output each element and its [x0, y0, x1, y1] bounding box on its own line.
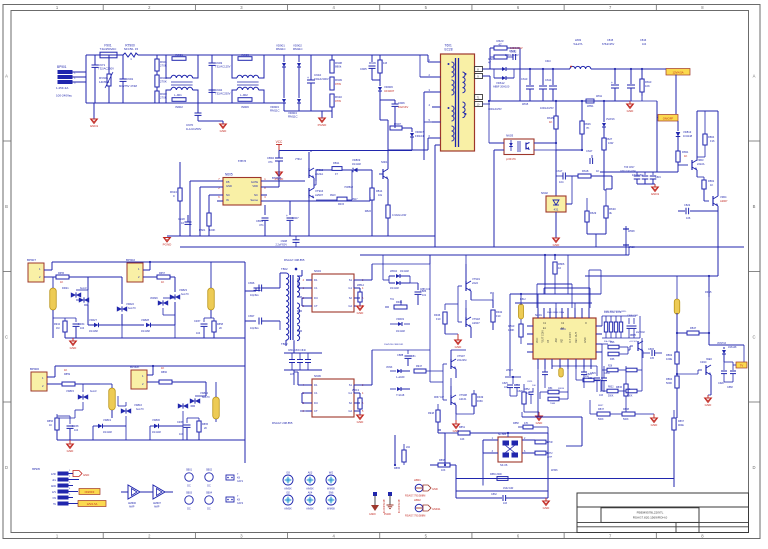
wire [552, 365, 597, 367]
svg-text:R822: R822 [365, 209, 372, 213]
svg-text:RM11C: RM11C [293, 47, 303, 51]
svg-text:C903: C903 [215, 61, 223, 65]
svg-text:GND: GND [627, 109, 635, 113]
resistor R901 [155, 55, 167, 71]
capsule F802 [559, 359, 564, 377]
capacitor C904 [209, 88, 231, 96]
svg-text:2K: 2K [204, 427, 207, 430]
resistor R618 [578, 169, 612, 178]
svg-text:AMP: AMP [154, 506, 160, 509]
svg-text:1K: 1K [549, 120, 553, 124]
svg-text:VD627: VD627 [89, 318, 97, 322]
resistor R915 [316, 170, 352, 206]
resistor R623 [494, 39, 507, 50]
svg-text:100K: 100K [508, 328, 514, 332]
wire [527, 326, 533, 352]
svg-text:T32/AC250V: T32/AC250V [98, 67, 114, 71]
svg-text:10: 10 [558, 266, 561, 270]
svg-text:1N4148: 1N4148 [152, 431, 161, 434]
svg-text:1N4168: 1N4168 [141, 330, 150, 333]
svg-text:C613: C613 [521, 77, 528, 81]
resistor R630 [604, 176, 616, 234]
svg-text:VCC: VCC [276, 140, 283, 144]
resistor R949 [472, 390, 484, 414]
capacitor C647 [586, 149, 593, 164]
svg-text:C1: C1 [314, 286, 318, 290]
fuse F901 [100, 44, 117, 58]
net port HB02 [405, 498, 441, 518]
svg-text:38034: 38034 [558, 388, 565, 390]
svg-text:SF-06: SF-06 [500, 463, 508, 467]
ground GND [70, 338, 78, 350]
svg-text:+: + [286, 214, 288, 218]
svg-text:N602: N602 [541, 191, 548, 195]
svg-text:BP907: BP907 [27, 258, 36, 262]
svg-text:R946: R946 [434, 313, 441, 317]
capacitor C816 [643, 348, 662, 360]
resistor R839 [607, 366, 622, 372]
svg-text:1K: 1K [161, 366, 164, 370]
svg-text:T06 C817: T06 C817 [624, 166, 635, 169]
svg-text:106: 106 [686, 216, 691, 220]
svg-text:R84: R84 [548, 387, 553, 390]
svg-text:150/16W C888 D81: 150/16W C888 D81 [384, 344, 404, 346]
svg-text:R847: R847 [690, 326, 697, 330]
wire [606, 176, 612, 206]
wire 12V rail [520, 68, 631, 70]
svg-text:431: 431 [554, 208, 559, 212]
wire [267, 150, 412, 187]
wire [434, 160, 436, 247]
svg-text:C825: C825 [502, 382, 508, 385]
svg-text:BP902: BP902 [126, 258, 135, 262]
svg-text:VT908: VT908 [459, 393, 467, 397]
wire lamp bottom rail [65, 337, 245, 339]
wire long center bus [360, 247, 629, 255]
ground GND2 [220, 121, 228, 133]
IC N605 PWM controller [218, 173, 266, 206]
svg-text:IN906: IN906 [241, 105, 249, 109]
svg-text:1N4148: 1N4148 [352, 163, 361, 166]
svg-text:C: C [752, 334, 755, 339]
svg-text:W907: W907 [506, 368, 514, 372]
net label ON/OFF [658, 115, 678, 122]
svg-text:10p/6kv: 10p/6kv [250, 294, 260, 297]
capacitor C649 [57, 416, 79, 440]
svg-text:R867: R867 [678, 420, 685, 423]
indicator A04 [305, 492, 315, 511]
capacitor C629 [724, 362, 736, 389]
svg-text:R858: R858 [217, 323, 224, 326]
resistor R652 [157, 272, 170, 284]
svg-text:bum70: bum70 [202, 396, 210, 399]
svg-text:C822: C822 [684, 203, 691, 207]
wire [294, 370, 306, 385]
svg-text:7=d118: 7=d118 [396, 394, 405, 397]
wire [294, 278, 306, 288]
svg-text:SN6: SN6 [329, 492, 334, 495]
resistor R902 [155, 71, 167, 87]
svg-text:GND: GND [651, 423, 659, 427]
resistor R942 [491, 300, 503, 330]
diode VD612 dual schottky [493, 67, 520, 89]
amplifier AM607 [146, 485, 173, 509]
ground GND1 secondary [651, 187, 660, 196]
label cluster texts [520, 298, 627, 407]
wire [170, 277, 175, 292]
wire [637, 184, 655, 187]
resistor IN901 [166, 53, 186, 62]
svg-text:500K: 500K [666, 381, 672, 385]
svg-text:WG: WG [329, 472, 333, 475]
svg-text:VD815: VD815 [66, 389, 74, 393]
svg-text:R862: R862 [666, 353, 673, 357]
diode VD9716 [717, 342, 737, 362]
svg-text:PGND: PGND [163, 243, 173, 247]
svg-text:1K: 1K [60, 280, 63, 284]
svg-text:A2907: A2907 [720, 199, 728, 203]
resistor R841 [607, 387, 622, 398]
capacitor C908 [275, 236, 299, 247]
svg-text:R83?: R83? [598, 405, 604, 407]
wire [267, 197, 370, 201]
svg-text:R836: R836 [616, 386, 623, 389]
wire [100, 262, 245, 280]
capacitor C616 [627, 38, 647, 101]
svg-text:3VW16: 3VW16 [606, 117, 615, 121]
svg-text:C614: C614 [545, 78, 552, 82]
triac VD629b [150, 297, 175, 306]
wire [488, 100, 504, 143]
svg-text:R36: R36 [610, 358, 615, 361]
svg-text:1K: 1K [710, 183, 713, 187]
svg-text:GND: GND [553, 243, 561, 247]
svg-text:Sense: Sense [250, 198, 258, 202]
wire [708, 297, 710, 345]
svg-text:T4A/250VAC: T4A/250VAC [100, 47, 117, 51]
wire [471, 294, 493, 300]
resistor R864 [666, 373, 679, 418]
svg-text:-IN2: -IN2 [555, 338, 558, 343]
wire [424, 92, 435, 160]
wire [522, 380, 582, 446]
svg-text:GND1: GND1 [90, 124, 99, 128]
wire [657, 118, 678, 132]
diode VD628 [122, 318, 175, 338]
svg-text:C906: C906 [398, 101, 405, 105]
wire IC top pins [538, 308, 589, 318]
svg-text:D-T CON: D-T CON [569, 332, 572, 343]
wire [676, 418, 678, 430]
wire lamp bottom rail 2 [57, 439, 245, 441]
svg-text:104: 104 [80, 327, 85, 330]
svg-text:ON: ON [53, 498, 57, 500]
wire [555, 69, 557, 118]
svg-text:101: 101 [422, 294, 427, 297]
wire [587, 234, 606, 247]
net label 12V/4.5A [631, 69, 690, 76]
svg-text:100K: 100K [209, 228, 215, 232]
svg-text:A/MSK: A/MSK [306, 488, 314, 491]
svg-text:FB: FB [226, 180, 230, 184]
svg-text:RSAG7.208.855: RSAG7.208.855 [272, 421, 293, 425]
svg-text:bum70: bum70 [136, 408, 144, 411]
wire [602, 338, 642, 391]
wire [314, 170, 316, 185]
svg-text:SB01: SB01 [186, 469, 193, 472]
label W306 [551, 469, 558, 472]
svg-text:500K: 500K [608, 396, 614, 398]
ground PGND [275, 166, 285, 181]
wire [568, 255, 601, 308]
svg-text:N603: N603 [506, 134, 514, 138]
svg-text:S1: S1 [349, 383, 353, 387]
svg-text:A/MSK: A/MSK [284, 508, 292, 511]
wire [534, 142, 557, 150]
wire [183, 418, 216, 440]
svg-text:R604: R604 [488, 57, 495, 61]
svg-text:22122M: 22122M [457, 358, 466, 362]
svg-text:1K: 1K [64, 368, 67, 372]
svg-text:IN: IN [226, 198, 229, 202]
svg-text:F669: F669 [477, 400, 483, 403]
svg-text:R627: R627 [606, 137, 613, 141]
svg-text:L-902: L-902 [240, 93, 248, 97]
resistor R842 [602, 389, 642, 397]
svg-text:REF OUT: REF OUT [575, 332, 578, 343]
svg-text:RB14: RB14 [376, 190, 383, 193]
svg-text:R831: R831 [682, 150, 689, 154]
wire [302, 298, 306, 306]
svg-text:103: 103 [503, 502, 508, 505]
capacitor CR37 [194, 318, 214, 338]
diode VD830 [150, 418, 183, 440]
svg-text:500K: 500K [627, 396, 633, 398]
svg-text:R812: R812 [520, 298, 526, 301]
diode VD909 [344, 158, 372, 189]
svg-text:C613: C613 [509, 49, 516, 53]
svg-text:IN903: IN903 [241, 53, 249, 57]
resistor R838 [616, 408, 648, 421]
diode VD903 [270, 67, 286, 113]
svg-text:R851: R851 [459, 426, 466, 429]
wire [430, 364, 451, 400]
svg-text:R821: R821 [199, 228, 206, 232]
resistor IN902 [172, 98, 186, 109]
svg-text:R864: R864 [666, 377, 673, 381]
svg-text:VD622: VD622 [126, 302, 134, 306]
resistor R922 [365, 205, 407, 236]
resistor R859 [62, 368, 75, 386]
svg-text:1000uF/25V: 1000uF/25V [488, 108, 502, 111]
wire [380, 55, 440, 62]
svg-text:B: B [753, 204, 756, 209]
svg-text:500K: 500K [623, 418, 629, 421]
svg-text:W811: W811 [587, 104, 594, 108]
svg-text:RSAG7.308.855: RSAG7.308.855 [284, 258, 305, 262]
svg-text:BP901: BP901 [57, 65, 67, 69]
wire [75, 384, 100, 392]
resistor R860 lamp [159, 366, 172, 384]
title block [577, 493, 749, 533]
resistor R934 [54, 318, 67, 338]
wire [602, 316, 640, 338]
capacitor C637 [248, 314, 272, 330]
svg-text:IN2: IN2 [561, 339, 564, 344]
wire [445, 286, 471, 322]
wire [383, 255, 418, 283]
svg-text:VDD: VDD [252, 184, 258, 188]
svg-text:RM11C: RM11C [276, 47, 286, 51]
svg-text:1M: 1M [383, 61, 388, 65]
wire secondary ground rail [490, 101, 630, 110]
svg-text:W815: W815 [522, 103, 529, 106]
svg-text:I03: I03 [286, 472, 290, 475]
wire [294, 372, 306, 411]
svg-text:BT8676: BT8676 [272, 176, 282, 180]
svg-text:R917: R917 [352, 199, 358, 201]
svg-text:F10: F10 [496, 314, 501, 318]
capacitor C619 [632, 172, 648, 184]
ground GND3 test point [369, 493, 386, 517]
svg-text:L-901: L-901 [174, 93, 182, 97]
svg-text:T32/AC125V: T32/AC125V [215, 65, 231, 69]
svg-text:SB04: SB04 [206, 492, 213, 495]
capacitor C903 [209, 55, 231, 103]
svg-text:R942: R942 [496, 310, 503, 314]
connector BP902 [126, 258, 143, 282]
resistor IN903 [238, 53, 252, 60]
svg-text:GND: GND [226, 184, 232, 188]
capacitor C628 [718, 362, 727, 385]
svg-text:D1: D1 [314, 383, 318, 387]
wire [261, 204, 265, 206]
wire [482, 440, 484, 486]
svg-text:DC: DC [207, 485, 211, 488]
svg-text:1N32 10R: 1N32 10R [503, 488, 514, 490]
wire [354, 350, 372, 385]
transformer T802 winding [272, 267, 302, 341]
svg-text:A/MSK: A/MSK [284, 488, 292, 491]
capacitor C830 [599, 366, 610, 397]
indicator I03 [283, 472, 293, 491]
svg-text:1N4148: 1N4148 [103, 431, 112, 434]
resistor R656 [212, 318, 224, 338]
svg-text:GND: GND [220, 129, 228, 133]
wire [360, 264, 372, 288]
ground PGND [163, 238, 173, 247]
svg-text:675uF/25V: 675uF/25V [602, 43, 615, 46]
diode VD627 [88, 318, 120, 333]
svg-text:C815: C815 [607, 38, 614, 42]
svg-text:1000uF/25V: 1000uF/25V [505, 54, 519, 57]
svg-text:CR39: CR39 [177, 421, 184, 424]
svg-text:T32/AC250V: T32/AC250V [215, 92, 231, 96]
IC SF901 bridge [483, 432, 535, 467]
resistor R862 on-off [697, 170, 715, 201]
svg-text:CT: CT [314, 304, 318, 308]
svg-text:1L1/AC250V: 1L1/AC250V [186, 127, 201, 131]
svg-text:R947: R947 [416, 365, 423, 368]
transistor VT603 [678, 158, 705, 170]
svg-text:N901: N901 [381, 160, 388, 164]
svg-text:1K: 1K [49, 424, 52, 427]
svg-text:VD829: VD829 [150, 297, 158, 300]
resistor R853 [540, 387, 568, 394]
diode VD904 [288, 67, 301, 119]
resistor R906 [369, 60, 388, 73]
wire [143, 261, 151, 270]
wire [510, 376, 601, 392]
svg-text:44K: 44K [460, 438, 465, 441]
svg-text:500K: 500K [598, 418, 604, 421]
svg-text:C819: C819 [655, 176, 661, 179]
svg-text:UF4007: UF4007 [384, 89, 395, 93]
svg-text:C81B: C81B [648, 348, 654, 351]
wire [438, 422, 446, 466]
capacitor C822 [678, 172, 718, 220]
svg-text:GND1: GND1 [651, 192, 660, 196]
wire [47, 366, 245, 377]
transistor VT916 [309, 185, 324, 236]
svg-text:G2: G2 [348, 304, 352, 308]
wire [47, 383, 62, 385]
svg-text:BP90K: BP90K [130, 365, 139, 369]
resistor R604 [488, 55, 507, 65]
ground GND1 [90, 103, 99, 128]
svg-text:GATE: GATE [251, 180, 258, 184]
triac VD816 [112, 384, 144, 426]
svg-text:R629: R629 [590, 211, 597, 215]
svg-text:1N4148: 1N4148 [683, 134, 693, 138]
triac VD824 [190, 391, 210, 404]
svg-text:C910: C910 [314, 73, 322, 77]
svg-text:R837: R837 [598, 408, 605, 411]
resistor W613 [352, 385, 362, 415]
capacitor bank C841 C846 C840 [284, 341, 322, 376]
wire [456, 465, 674, 498]
svg-text:1K: 1K [596, 169, 599, 173]
svg-text:L803: L803 [575, 38, 582, 42]
svg-text:R9E5: R9E5 [705, 290, 712, 294]
svg-text:1N4168: 1N4168 [89, 330, 98, 333]
IC N801 inverter controller [533, 313, 596, 359]
svg-text:p=R17b: p=R17b [506, 157, 516, 161]
wire [576, 400, 590, 414]
svg-text:D81: D81 [411, 355, 416, 358]
svg-text:bum70: bum70 [128, 307, 136, 310]
wire [628, 346, 633, 354]
capacitor C825 [502, 382, 513, 396]
svg-text:DC: DC [187, 485, 191, 488]
svg-text:202: 202 [406, 446, 411, 449]
resistor R854 [540, 392, 568, 405]
resistor R629 [572, 198, 597, 234]
svg-text:5M80 R806 C80b: 5M80 R806 C80b [547, 312, 565, 314]
wire [544, 254, 546, 294]
svg-text:R26: R26 [608, 366, 613, 368]
capacitor CB92 [267, 156, 283, 166]
potentiometer W811 [586, 96, 642, 108]
svg-text:+: + [611, 81, 613, 85]
capacitor C886 [415, 283, 427, 305]
svg-text:RSAG7.790.588M: RSAG7.790.588M [405, 495, 425, 498]
resistor R921 [199, 213, 215, 236]
wire [380, 100, 395, 128]
wire [507, 48, 520, 101]
varistor RV901 [99, 55, 113, 103]
svg-text:CR20: CR20 [700, 361, 707, 364]
